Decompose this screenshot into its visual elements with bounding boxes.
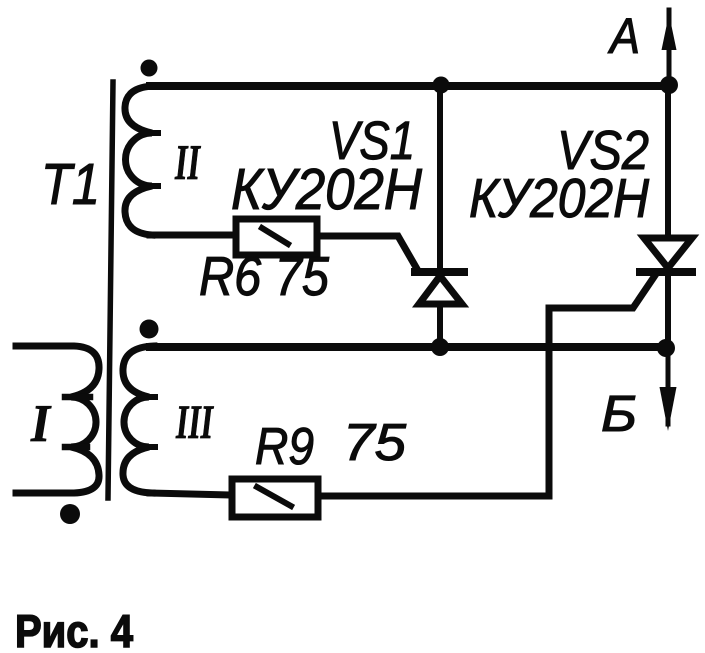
transformer core T1: [108, 82, 113, 498]
node junction dot middle right at B: [657, 339, 675, 357]
thyristor VS1 vertical (bottom): [437, 308, 443, 347]
thyristor VS1 anode-cathode vertical (top): [437, 86, 443, 270]
terminal A arrowhead: [662, 14, 677, 50]
winding I polarity dot: [60, 504, 80, 524]
wire: R9 to VS2 gate: [318, 274, 656, 496]
wire: terminal A riser: [667, 10, 672, 86]
winding II cusp ticks: [144, 130, 158, 136]
terminal B arrowhead: [660, 387, 677, 431]
node junction dot top at VS1: [433, 77, 450, 94]
svg-text:Рис. 4: Рис. 4: [15, 605, 133, 653]
svg-text:75: 75: [343, 414, 407, 472]
thyristor VS2 cathode bar: [640, 268, 692, 276]
winding III polarity dot: [140, 320, 159, 339]
svg-text:КУ202Н: КУ202Н: [469, 167, 649, 229]
svg-text:R6 75: R6 75: [199, 245, 329, 307]
winding III cusp ticks: [141, 394, 155, 400]
svg-text:III: III: [175, 396, 214, 449]
resistor R9 internal diagonal: [257, 487, 291, 506]
wire: middle bus: [150, 343, 667, 351]
thyristor VS1 triangle: [419, 276, 462, 304]
thyristor VS1 cathode bar: [415, 268, 464, 276]
wire: terminal B drop: [666, 348, 671, 424]
wire: winding III bottom to R9: [150, 493, 232, 495]
node junction dot middle at VS1: [431, 338, 449, 356]
winding II: [125, 86, 154, 235]
winding I (primary): [16, 346, 99, 493]
winding II polarity dot: [141, 60, 158, 77]
svg-text:R9: R9: [255, 418, 314, 476]
svg-text:Б: Б: [601, 385, 637, 442]
resistor R9 body: [232, 479, 318, 517]
svg-text:КУ202Н: КУ202Н: [231, 157, 422, 222]
svg-text:A: A: [607, 8, 640, 64]
thyristor VS2 anode vertical (top): [665, 86, 671, 238]
svg-text:Т1: Т1: [41, 152, 100, 217]
wire: top bus from winding II to terminal A branch: [150, 82, 670, 90]
thyristor VS2 vertical (bottom): [665, 272, 671, 348]
resistor R6 body: [236, 219, 317, 255]
thyristor VS2 triangle: [644, 238, 692, 268]
svg-text:II: II: [174, 134, 201, 190]
winding III: [123, 346, 154, 493]
winding I cusp ticks: [65, 394, 90, 401]
svg-text:I: I: [30, 395, 52, 453]
wire: R6 to VS1 gate: [317, 236, 417, 269]
resistor R6 internal diagonal: [262, 228, 288, 244]
wire: winding II bottom to R6: [150, 232, 236, 239]
node junction dot top right at A: [660, 76, 678, 94]
